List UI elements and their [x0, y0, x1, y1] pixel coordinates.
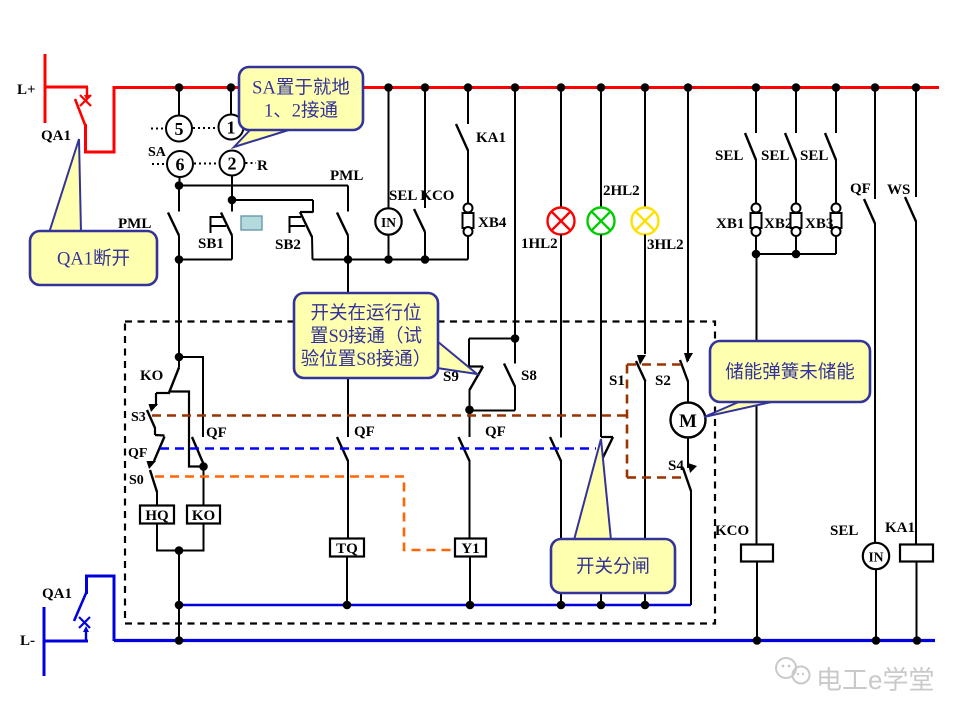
wire: left bottom rail	[178, 259, 232, 261]
svg-text:KO: KO	[140, 368, 163, 384]
svg-text:储能弹簧未储能: 储能弹簧未储能	[725, 362, 855, 383]
label 1HL2	[521, 236, 558, 252]
label S8	[521, 368, 537, 384]
svg-text:SEL: SEL	[800, 148, 828, 164]
svg-text:电工e学堂: 电工e学堂	[816, 665, 934, 695]
label S9	[443, 369, 459, 385]
svg-text:1HL2: 1HL2	[521, 236, 558, 252]
label S3	[131, 410, 146, 425]
svg-text:R: R	[257, 158, 268, 174]
wire: SA-6 down to node A	[179, 177, 181, 186]
node D junction (KO coil top)	[199, 462, 208, 471]
svg-text:KA1: KA1	[885, 520, 915, 536]
inner rail junctions	[175, 601, 650, 610]
label XB2	[764, 216, 792, 232]
svg-text:QF: QF	[485, 424, 506, 440]
label XB4	[478, 215, 507, 231]
mechanical link QF (blue dashed)	[160, 447, 596, 450]
callout: SA in local position	[234, 67, 363, 147]
svg-text:KA1: KA1	[476, 130, 506, 146]
position switch S9/S8 parallel pair	[465, 334, 519, 414]
label XB1	[716, 216, 744, 232]
label SEL #2	[761, 148, 789, 164]
label KA1 (coil)	[885, 520, 915, 536]
svg-text:2: 2	[228, 154, 237, 174]
mechanical link to S4 (brown dashed)	[627, 476, 687, 479]
wire: node E down to L- bus	[178, 551, 180, 642]
wire: node A to PML right branch	[179, 185, 348, 187]
svg-text:QA1: QA1	[42, 586, 72, 602]
mechanical link vertical (brown dashed)	[626, 365, 629, 478]
svg-text:6: 6	[176, 155, 185, 175]
link XB2	[791, 204, 802, 255]
svg-text:QA1: QA1	[41, 128, 71, 144]
label KO (contact)	[140, 368, 163, 384]
wire: node C column into box	[178, 260, 180, 358]
label QF (TQ branch)	[354, 424, 375, 440]
mechanical link S3 (brown dashed)	[152, 414, 627, 417]
pushbutton SB1 (NO)	[211, 200, 233, 260]
label PML left	[118, 216, 151, 232]
label L-	[20, 633, 35, 649]
lamp 1HL2 (red)	[548, 88, 575, 438]
svg-text:QF: QF	[206, 425, 227, 441]
coil box HQ	[140, 506, 174, 525]
svg-text:1、2接通: 1、2接通	[264, 100, 338, 121]
label KCO (coil)	[715, 523, 749, 539]
callout: QA1 open	[30, 139, 157, 285]
contact QF (TQ branch, NO)	[337, 437, 348, 539]
wire: SA-2 down to node B	[231, 176, 233, 201]
svg-text:SEL: SEL	[761, 148, 789, 164]
svg-text:PML: PML	[330, 168, 363, 184]
contact KCO (NO)	[414, 88, 425, 260]
motor M (spring charging)	[671, 403, 706, 438]
svg-text:3HL2: 3HL2	[647, 237, 684, 253]
svg-text:Y1: Y1	[461, 541, 479, 557]
wire: L- blue bus	[114, 639, 935, 642]
contact QF (Y1 branch, NO)	[459, 410, 470, 539]
svg-text:KO: KO	[192, 508, 215, 524]
selector switch SA contact 2	[220, 151, 245, 176]
label S4	[668, 458, 684, 474]
SA cam dotted lines	[151, 128, 256, 164]
coil box TQ	[330, 539, 364, 558]
pushbutton SB2 (NC)	[290, 200, 314, 260]
label S1	[609, 373, 625, 389]
indicator SEL IN (bottom)	[863, 543, 889, 640]
svg-text:L+: L+	[17, 82, 36, 98]
svg-text:KCO: KCO	[715, 523, 749, 539]
svg-text:开关在运行位: 开关在运行位	[310, 303, 421, 324]
svg-text:SA: SA	[148, 145, 167, 160]
svg-text:S4: S4	[668, 458, 684, 474]
label SB1	[198, 236, 224, 252]
svg-text:S0: S0	[129, 473, 144, 488]
coil box KO	[187, 467, 220, 525]
label SEL #1	[715, 148, 743, 164]
contact KO (NO) with chain S3 QF S0	[147, 357, 180, 506]
disconnector QA1 (bottom, open)	[43, 576, 115, 676]
svg-text:SEL: SEL	[715, 148, 743, 164]
svg-text:TQ: TQ	[336, 541, 358, 557]
svg-text:L-: L-	[20, 633, 35, 649]
contact SEL #3 (NO)	[825, 88, 836, 204]
contact SEL #1 (NO)	[745, 88, 756, 204]
svg-text:SA置于就地: SA置于就地	[252, 77, 350, 98]
contact (1HL2 branch, NO)	[550, 437, 561, 605]
coil KCO	[741, 545, 773, 641]
label S2	[655, 373, 671, 389]
wire: bus to SA contact 1	[230, 88, 232, 115]
position switch S4	[683, 438, 697, 606]
wire: node B to SB2 branch	[232, 199, 313, 201]
svg-text:IN: IN	[868, 550, 883, 565]
wire: Y1 to inner rail	[469, 557, 471, 606]
label SA	[148, 145, 167, 160]
svg-text:SEL: SEL	[830, 523, 858, 539]
label PML right	[330, 168, 363, 184]
node B junction	[228, 196, 237, 205]
label QF (Y1 branch)	[485, 424, 506, 440]
position switch S1	[636, 355, 646, 605]
wire: XB bottom rail	[752, 250, 836, 259]
svg-text:XB4: XB4	[478, 215, 507, 231]
wire: KO bypass to KO coil branch	[169, 392, 204, 467]
label S0	[129, 473, 144, 488]
selector switch SA contact 1	[219, 115, 244, 140]
svg-text:PML: PML	[118, 216, 151, 232]
indicator SEL IN (top)	[375, 88, 401, 260]
wire: L+ red bus	[114, 86, 939, 89]
svg-text:S1: S1	[609, 373, 625, 389]
callout: switch open	[551, 439, 675, 593]
svg-text:QF: QF	[354, 424, 375, 440]
label KA1 (contact)	[476, 130, 506, 146]
label SB2	[275, 237, 301, 253]
label QA1 (top)	[41, 128, 71, 144]
label 3HL2	[647, 237, 684, 253]
svg-text:HQ: HQ	[145, 508, 169, 524]
svg-text:S2: S2	[655, 373, 671, 389]
svg-text:1: 1	[227, 118, 236, 138]
svg-text:置S9接通（试: 置S9接通（试	[310, 326, 422, 347]
svg-text:SB1: SB1	[198, 236, 224, 252]
svg-text:验位置S8接通）: 验位置S8接通）	[301, 349, 432, 370]
svg-text:5: 5	[175, 119, 184, 139]
label 2HL2	[603, 183, 640, 199]
link XB1	[751, 204, 762, 255]
svg-text:XB2: XB2	[764, 216, 792, 232]
contact KA1 (NO)	[456, 88, 468, 204]
bus junction dots	[175, 83, 921, 92]
label XB3	[805, 216, 833, 232]
svg-text:2HL2: 2HL2	[603, 183, 640, 199]
node E junction	[175, 546, 184, 555]
junction on left rail	[175, 255, 184, 264]
callout: switch in run position	[294, 293, 477, 378]
callout: charging spring not charged	[704, 341, 870, 417]
indicator box (light blue)	[241, 216, 262, 230]
svg-text:QF: QF	[850, 181, 871, 197]
selector switch SA contact 5	[166, 116, 192, 142]
mechanical link S0 to Y1 (orange dashed)	[155, 477, 455, 551]
svg-text:WS: WS	[887, 182, 910, 198]
label QA1 (bottom)	[42, 586, 72, 602]
wire: inner blue rail	[179, 604, 691, 607]
contact PML (left, NO)	[168, 186, 179, 260]
L- bus junctions	[175, 636, 922, 645]
svg-text:QA1断开: QA1断开	[57, 248, 130, 269]
mechanical link to S2 (brown dashed)	[627, 363, 684, 366]
label SEL (bottom)	[830, 523, 858, 539]
label SEL #3	[800, 148, 828, 164]
contact QF (top right, NO)	[864, 88, 875, 543]
svg-text:SB2: SB2	[275, 237, 301, 253]
svg-text:XB3: XB3	[805, 216, 833, 232]
svg-text:XB1: XB1	[716, 216, 744, 232]
disconnector QA1 (top, open)	[44, 54, 115, 152]
contact WS (NO)	[905, 88, 916, 545]
position switch S2	[680, 353, 693, 403]
label QF (KO branch)	[206, 425, 227, 441]
mechanism dashed enclosure box	[125, 322, 715, 624]
wire: KCO coil column	[756, 254, 758, 545]
coil KA1	[900, 545, 933, 641]
contact PML (right, NO)	[337, 186, 348, 260]
link XB3	[831, 204, 842, 255]
label L+	[17, 82, 36, 98]
contact QF (KO-coil branch, NO)	[179, 357, 204, 467]
svg-text:开关分闸: 开关分闸	[576, 556, 650, 577]
label SEL KCO	[389, 188, 454, 204]
svg-text:S8: S8	[521, 368, 537, 384]
lamp 2HL2 (green)	[588, 88, 615, 437]
label QF (top right)	[850, 181, 871, 197]
wire: HQ/KO bottoms join	[157, 524, 204, 551]
wire: TQ to inner rail	[346, 557, 348, 606]
svg-text:SEL KCO: SEL KCO	[389, 188, 454, 204]
contact (2HL2 branch, NC)	[601, 437, 613, 605]
wire: S9/S8 column from bus	[514, 88, 516, 339]
svg-text:M: M	[679, 411, 697, 432]
lamp 3HL2 (yellow)	[632, 88, 659, 354]
watermark logo	[776, 658, 934, 695]
svg-text:IN: IN	[381, 215, 396, 230]
svg-text:S3: S3	[131, 410, 146, 425]
label QF (left chain)	[128, 446, 147, 461]
label R	[257, 158, 268, 174]
wire: right bottom rail with junctions	[313, 255, 469, 264]
wire: S2/M column from bus	[687, 88, 689, 361]
coil box Y1	[455, 539, 486, 558]
contact SEL #2 (NO)	[785, 88, 796, 204]
wire: bus to SA contact 5	[178, 88, 180, 116]
selector switch SA contact 6	[167, 151, 193, 177]
link XB4	[463, 204, 474, 260]
svg-text:QF: QF	[128, 446, 147, 461]
node A junction	[175, 181, 184, 190]
node C junction	[175, 353, 184, 362]
label WS	[887, 182, 910, 198]
wire: TQ column upper	[347, 260, 349, 438]
